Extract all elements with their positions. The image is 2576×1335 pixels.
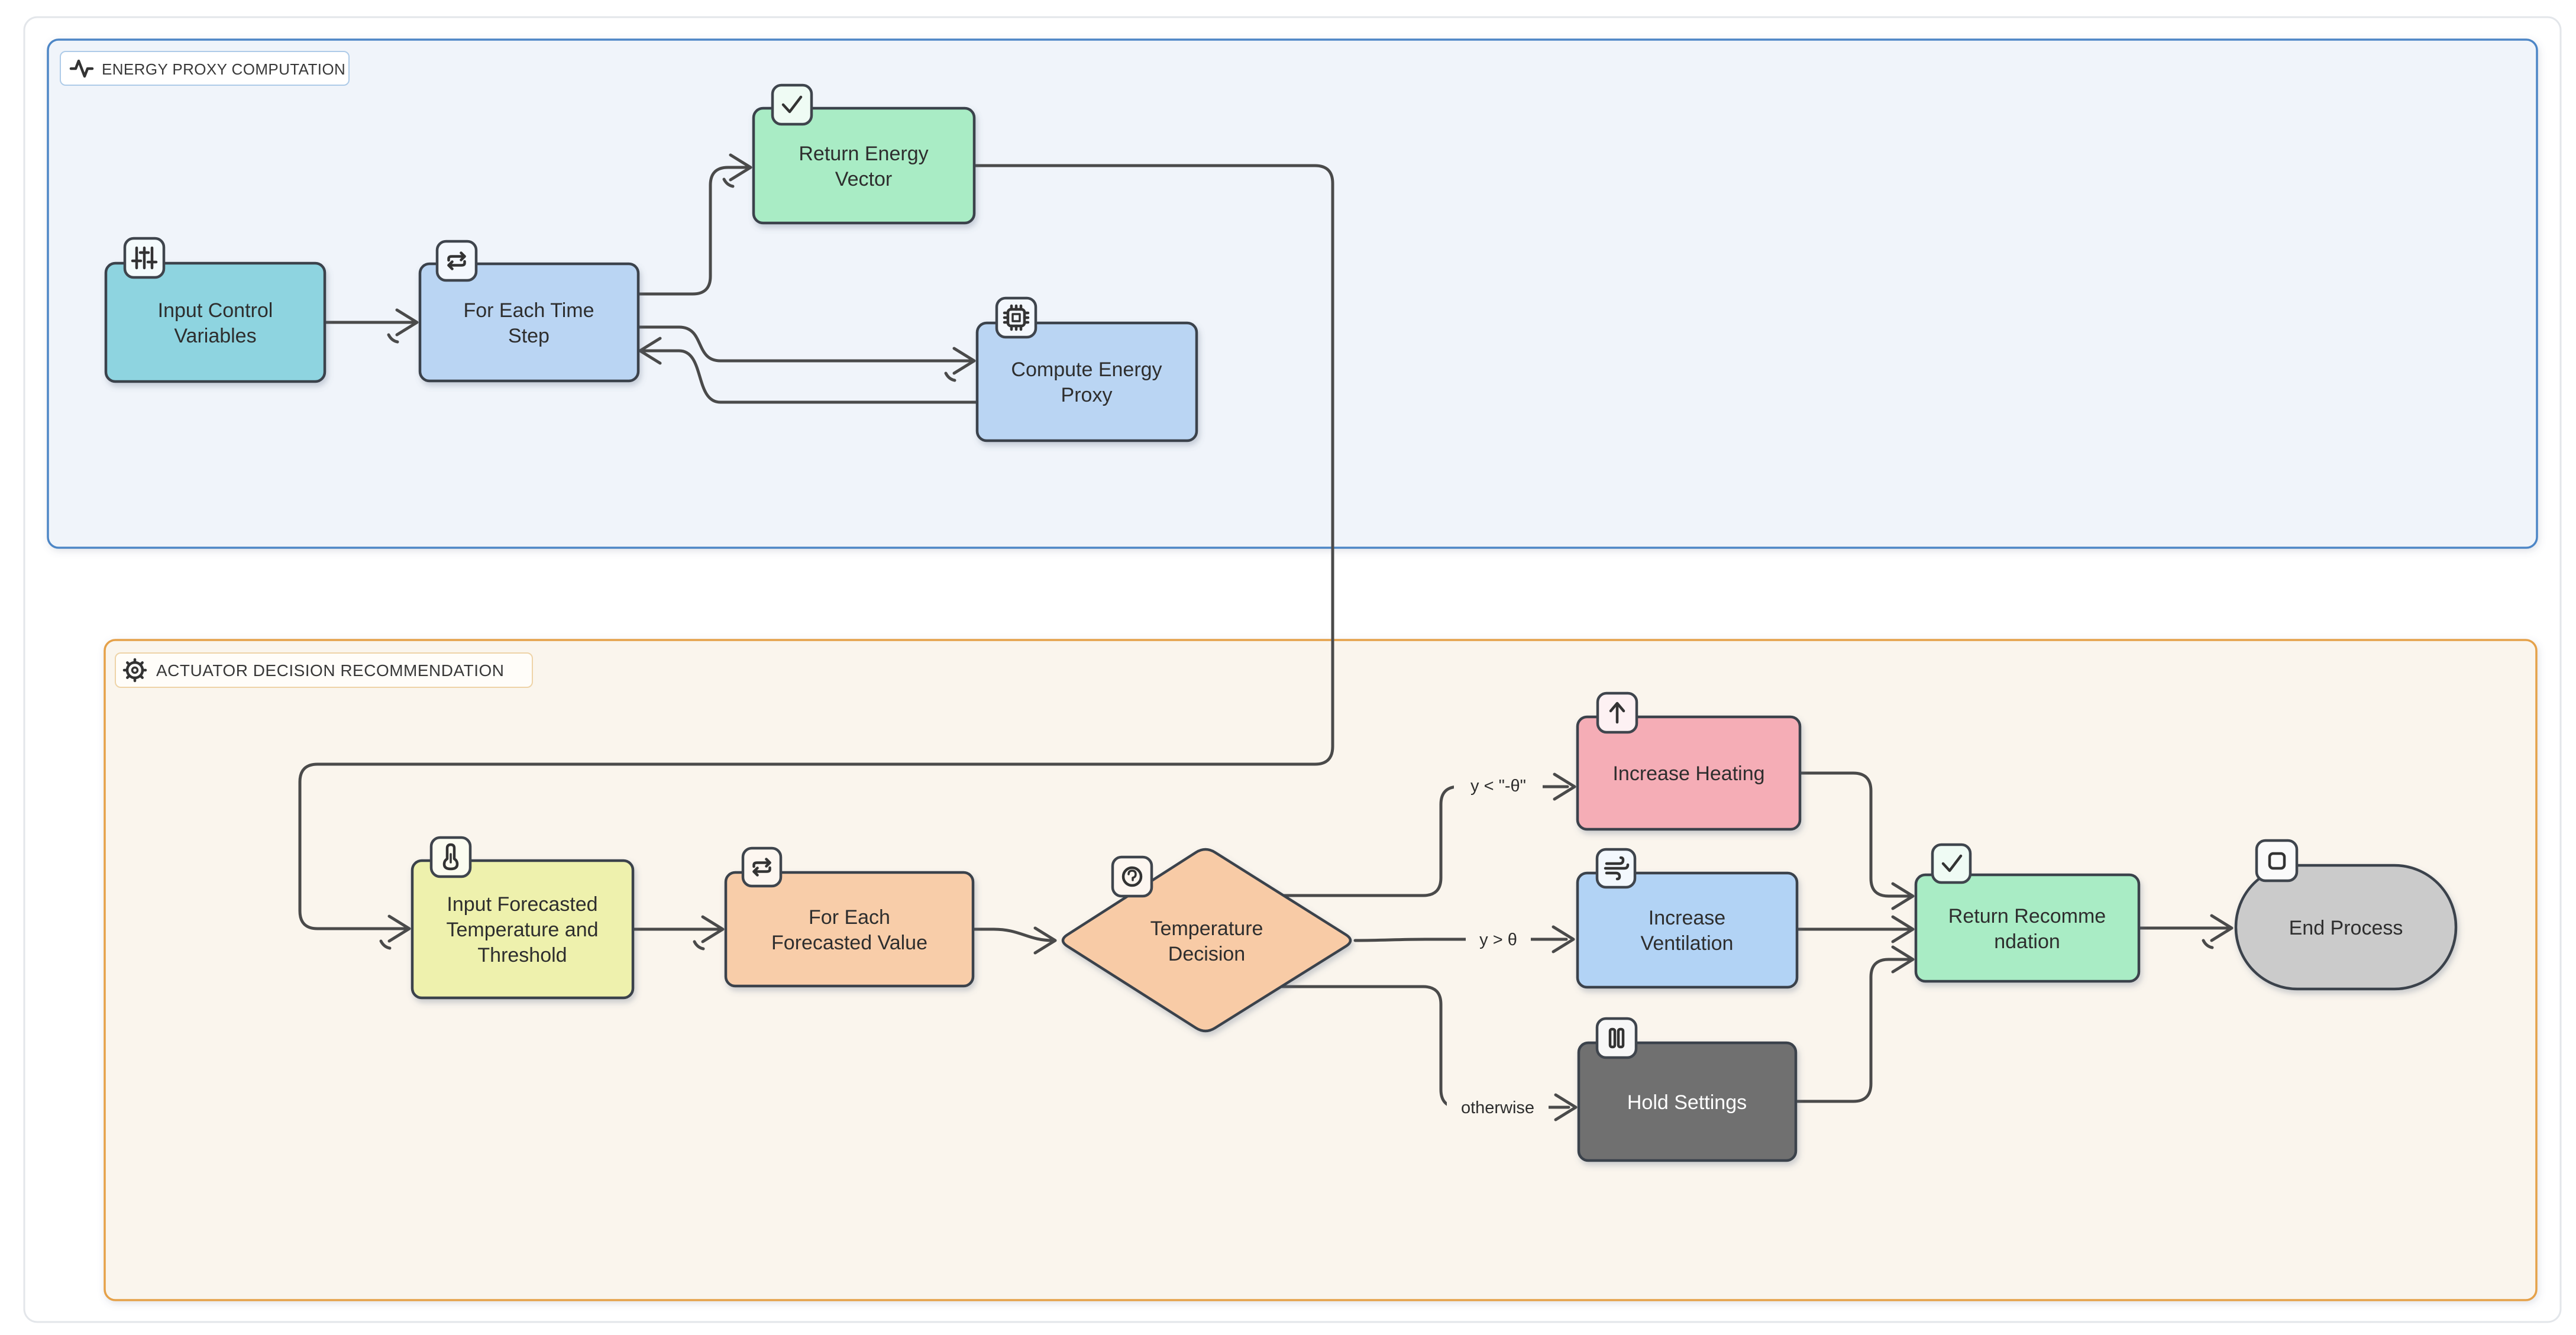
svg-text:Compute Energy: Compute Energy xyxy=(1011,358,1162,381)
svg-text:Increase: Increase xyxy=(1649,907,1725,929)
wire: Increase Ventilation -> Return Recommendation xyxy=(1797,928,1909,931)
svg-text:Increase Heating: Increase Heating xyxy=(1612,762,1764,785)
svg-text:ndation: ndation xyxy=(1994,930,2060,953)
node: End Process (stadium) xyxy=(2236,865,2456,989)
wire: Input Control Variables -> For Each Time Step xyxy=(325,321,414,324)
wire: Compute Energy Proxy -> For Each Time Step xyxy=(643,351,977,402)
edge label: y > θ xyxy=(1466,924,1531,953)
icon badge: pause (Hold Settings) xyxy=(1597,1019,1636,1058)
svg-text:ACTUATOR DECISION RECOMMENDATI: ACTUATOR DECISION RECOMMENDATION xyxy=(156,661,504,680)
svg-text:Return Recomme: Return Recomme xyxy=(1948,905,2106,927)
wire: Input Forecasted -> For Each Forecasted Value xyxy=(633,928,720,931)
wire: Temperature Decision -> Hold Settings (label otherwise) xyxy=(1281,987,1569,1107)
svg-text:Forecasted Value: Forecasted Value xyxy=(771,932,927,954)
edge label: y < "-θ" xyxy=(1454,770,1543,800)
svg-text:Threshold: Threshold xyxy=(477,944,567,966)
wire: Temperature Decision -> Increase Heating (label y < "-0") xyxy=(1281,787,1567,896)
icon badge: cpu (Compute Energy Proxy) xyxy=(997,298,1036,337)
wire: For Each Time Step -> Return Energy Vector xyxy=(638,167,747,294)
icon badge: check (Return Energy Vector) xyxy=(773,85,812,124)
svg-text:Input Control: Input Control xyxy=(158,299,273,322)
svg-text:Proxy: Proxy xyxy=(1061,384,1113,406)
svg-text:Step: Step xyxy=(508,325,550,347)
svg-text:End Process: End Process xyxy=(2289,917,2403,939)
icon badge: repeat (For Each Time Step) xyxy=(437,241,476,280)
svg-text:Variables: Variables xyxy=(174,325,256,347)
node: Input Forecasted Temperature and Threshold xyxy=(412,861,633,998)
wire: For Each Time Step -> Compute Energy Proxy xyxy=(638,327,971,361)
edge label: otherwise xyxy=(1447,1092,1549,1121)
icon badge: sliders (Input Control Variables) xyxy=(125,238,164,277)
wire: Hold Settings -> Return Recommendation xyxy=(1796,959,1909,1101)
subgraph label: ACTUATOR DECISION RECOMMENDATION xyxy=(115,653,532,687)
node: Hold Settings xyxy=(1579,1043,1796,1161)
node: Compute Energy Proxy xyxy=(977,323,1197,441)
icon badge: arrow up (Increase Heating) xyxy=(1598,693,1637,732)
node: Return Recommendation xyxy=(1916,875,2139,981)
node: For Each Time Step xyxy=(420,264,638,381)
icon badge: thermometer (Input Forecasted) xyxy=(431,838,470,877)
svg-text:ENERGY PROXY COMPUTATION: ENERGY PROXY COMPUTATION xyxy=(102,60,345,78)
wire: Return Recommendation -> End Process xyxy=(2139,927,2228,930)
node: Input Control Variables xyxy=(106,263,325,382)
node: For Each Forecasted Value xyxy=(726,872,973,986)
node: Return Energy Vector xyxy=(754,108,974,223)
subgraph container: ACTUATOR DECISION RECOMMENDATION xyxy=(105,640,2536,1300)
icon badge: question (Temperature Decision) xyxy=(1113,857,1152,896)
svg-text:Temperature: Temperature xyxy=(1150,917,1263,940)
subgraph label: ENERGY PROXY COMPUTATION xyxy=(60,51,349,85)
subgraph container: ENERGY PROXY COMPUTATION xyxy=(48,40,2537,548)
wire: Return Energy Vector -> Input Forecasted Temperature and Threshold (long loop) xyxy=(300,166,1333,929)
icon badge: repeat (For Each Forecasted Value) xyxy=(743,848,781,886)
icon badge: check (Return Recommendation) xyxy=(1932,845,1970,883)
wire: Increase Heating -> Return Recommendation xyxy=(1800,773,1909,896)
svg-text:Input Forecasted: Input Forecasted xyxy=(447,893,597,916)
svg-text:Temperature and: Temperature and xyxy=(446,919,598,941)
svg-text:y < "-θ": y < "-θ" xyxy=(1470,777,1526,796)
icon badge: wind (Increase Ventilation) xyxy=(1597,849,1635,887)
svg-text:Ventilation: Ventilation xyxy=(1641,932,1734,955)
wire: For Each Forecasted Value -> Temperature Decision xyxy=(973,929,1053,940)
svg-text:otherwise: otherwise xyxy=(1461,1098,1534,1117)
icon badge: stop square (End Process) xyxy=(2257,841,2297,881)
node: Increase Heating xyxy=(1578,717,1800,829)
svg-text:Return Energy: Return Energy xyxy=(799,143,928,165)
svg-text:Vector: Vector xyxy=(835,168,892,190)
svg-text:Hold Settings: Hold Settings xyxy=(1627,1091,1747,1114)
wire: Temperature Decision -> Increase Ventilation (label y > θ) xyxy=(1355,939,1566,940)
svg-text:Decision: Decision xyxy=(1168,943,1245,965)
node: Temperature Decision (diamond) xyxy=(1063,849,1350,1031)
svg-text:For Each: For Each xyxy=(809,906,890,929)
svg-text:y > θ: y > θ xyxy=(1479,930,1517,949)
node: Increase Ventilation xyxy=(1578,873,1797,987)
svg-text:For Each Time: For Each Time xyxy=(463,299,594,322)
